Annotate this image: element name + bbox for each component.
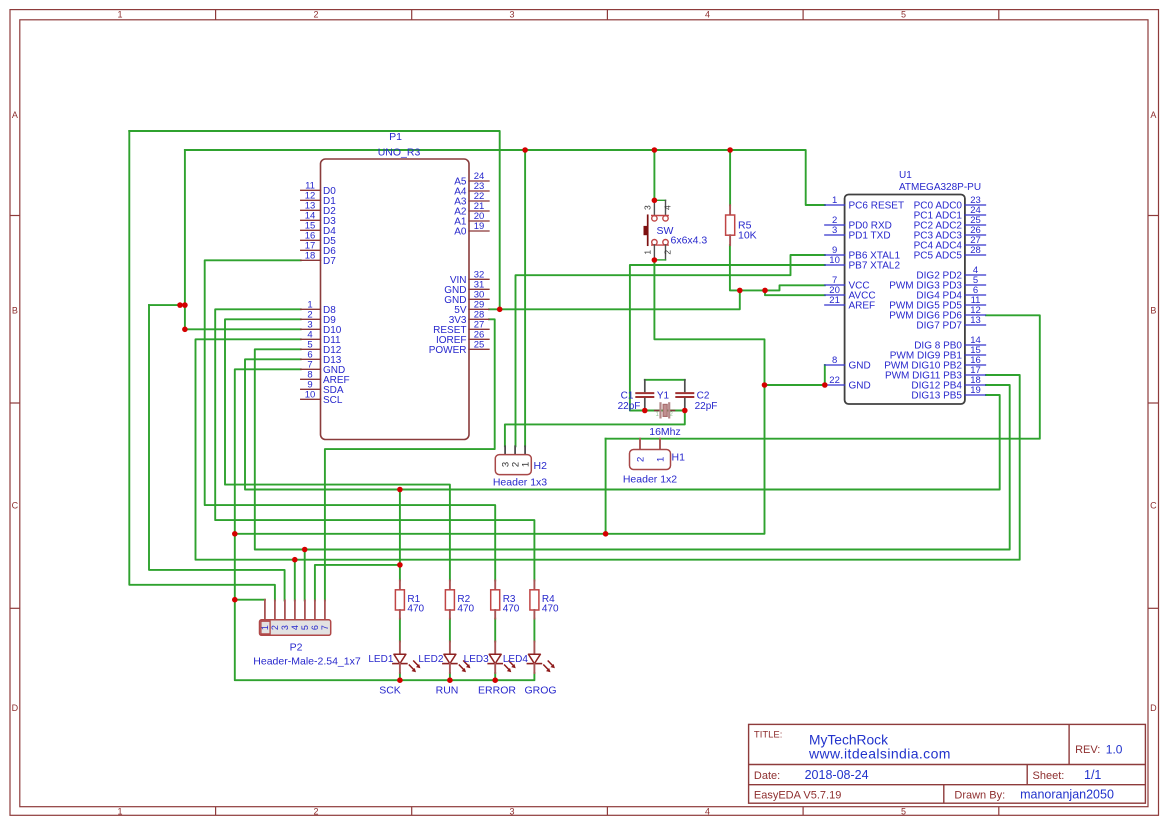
wire node A to P2 pin3 [149,305,285,600]
svg-text:DIG7 PD7: DIG7 PD7 [916,321,962,332]
svg-text:REV:: REV: [1075,744,1100,756]
wire XTAL1 to H2 pin2 [516,255,825,446]
wire P1 5V to VCC net [489,290,740,309]
resistor R3 470 [491,580,520,618]
wire D11 / P2 pin4 / U1 PB3 [196,339,1020,559]
svg-text:D: D [1150,703,1157,713]
wire D13 to R1 and U1 PB5 [245,359,1000,489]
wire SW to rail [653,150,655,200]
LED2 RUN [418,642,470,697]
svg-text:SCK: SCK [379,685,401,697]
wire P2 pin6 to R1 net [315,565,400,601]
svg-text:TITLE:: TITLE: [754,729,783,740]
svg-text:PC6 RESET: PC6 RESET [849,201,905,212]
svg-text:H1: H1 [672,451,686,463]
svg-text:P1: P1 [389,131,402,143]
svg-text:D: D [12,703,19,713]
wire crystal node2 to H2 pin3 [505,411,685,447]
wire VCC jog to R5 bottom [730,245,825,290]
svg-text:B: B [1150,306,1156,316]
svg-text:6: 6 [310,625,320,630]
svg-text:4: 4 [705,807,710,817]
crystal Y1 16Mhz [649,390,681,438]
wire H2 pin1 to RESET rail [524,150,526,446]
svg-text:2: 2 [313,807,318,817]
svg-text:PB7 XTAL2: PB7 XTAL2 [849,261,901,272]
svg-text:1: 1 [520,462,531,467]
wire R3 LED3 link [494,619,496,642]
wire stub at node A [149,304,185,306]
svg-text:2018-08-24: 2018-08-24 [805,768,869,782]
wire R2 LED2 link [449,619,451,642]
svg-text:P2: P2 [290,641,303,653]
svg-text:ATMEGA328P-PU: ATMEGA328P-PU [899,182,981,193]
svg-text:H2: H2 [534,460,548,472]
wire R4 LED4 link [533,619,535,642]
title block [749,724,1146,803]
svg-text:5: 5 [901,10,906,20]
connector H1 Header 1x2 [623,439,685,486]
svg-text:3: 3 [832,225,837,236]
svg-text:10: 10 [305,390,316,401]
svg-text:LED3: LED3 [464,654,489,665]
svg-text:22pF: 22pF [618,401,641,412]
svg-text:1/1: 1/1 [1084,768,1101,782]
svg-text:22: 22 [829,375,840,386]
svg-text:1: 1 [832,195,837,206]
svg-text:4: 4 [662,205,672,210]
resistor R2 470 [445,580,474,618]
connector P1 UNO_R3 [301,131,489,439]
svg-text:LED4: LED4 [503,654,528,665]
svg-text:4: 4 [705,10,710,20]
svg-text:A0: A0 [454,227,467,238]
svg-text:5: 5 [300,625,310,630]
LED1 SCK [368,642,420,697]
svg-text:1: 1 [117,807,122,817]
svg-text:8: 8 [832,355,837,366]
svg-text:2: 2 [270,625,280,630]
svg-text:10: 10 [829,255,840,266]
wire 5V top rail from net node to P1 5V pin [129,131,499,309]
svg-text:13: 13 [970,315,981,326]
svg-text:21: 21 [829,295,840,306]
svg-text:ERROR: ERROR [478,685,516,697]
svg-text:19: 19 [970,385,981,396]
svg-text:manoranjan2050: manoranjan2050 [1020,788,1114,802]
svg-text:LED1: LED1 [368,654,393,665]
wire R1 top vertical [399,490,401,581]
svg-text:3: 3 [509,10,514,20]
svg-text:3: 3 [280,625,290,630]
svg-text:5: 5 [901,807,906,817]
svg-text:DIG13 PB5: DIG13 PB5 [911,391,962,402]
svg-text:Header 1x3: Header 1x3 [493,476,547,488]
wire XTAL2 to crystal node1 [630,265,825,411]
wire top-rail to P2 pin2 [129,131,275,600]
svg-text:1: 1 [643,250,653,255]
svg-text:C: C [12,501,19,511]
svg-text:470: 470 [457,604,474,615]
connector P2 Header-Male-2.54_1x7 [253,600,361,668]
svg-text:25: 25 [474,340,485,351]
capacitor C2 22pF [676,380,717,412]
svg-text:6x6x4.3: 6x6x4.3 [671,234,708,246]
svg-text:EasyEDA V5.7.19: EasyEDA V5.7.19 [754,789,841,801]
svg-text:RUN: RUN [436,685,459,697]
svg-text:U1: U1 [899,170,912,181]
svg-text:3: 3 [643,205,653,210]
LED3 ERROR [464,642,517,697]
capacitor C1 22pF [618,380,654,412]
svg-text:2: 2 [313,10,318,20]
connector H2 Header 1x3 [493,446,547,488]
svg-text:SCL: SCL [323,395,343,406]
wire D9 to R2 [225,319,450,580]
svg-text:A: A [12,110,18,120]
wire LED2 bottom [449,673,451,680]
svg-text:470: 470 [503,604,520,615]
wire R1 LED1 link [399,619,401,642]
svg-text:Date:: Date: [754,770,780,782]
wire P2 pin4 riser [294,560,296,601]
wire P1 GND vertical to LED bottom rail [235,369,535,680]
wire D8 to R4 [215,309,534,580]
pushbutton SW 6x6x4.3 [643,200,708,260]
svg-text:Drawn By:: Drawn By: [954,789,1005,801]
svg-text:1: 1 [655,457,666,462]
svg-text:18: 18 [305,251,316,262]
wire AVCC branch [765,290,825,295]
svg-text:B: B [12,306,18,316]
LED4 GROG [503,642,557,697]
svg-text:PD1 TXD: PD1 TXD [849,231,891,242]
wire GND rail [235,385,765,534]
wire H1 / PD6 net [606,315,1040,438]
svg-text:1: 1 [260,625,270,630]
wire D7 to R3 [205,260,496,580]
svg-text:10K: 10K [738,230,757,242]
svg-text:C2: C2 [697,390,710,401]
wire SW bottom to U1 GND pin22 [654,260,764,385]
svg-text:470: 470 [407,604,424,615]
svg-text:GND: GND [849,361,871,372]
svg-text:7: 7 [320,625,330,630]
svg-text:LED2: LED2 [418,654,443,665]
svg-text:GROG: GROG [524,685,556,697]
wire crystal top cap link [645,379,685,381]
wire GND pin22 stub link [765,384,825,386]
svg-text:POWER: POWER [429,345,467,356]
svg-text:C1: C1 [621,390,634,401]
resistor R5 10K [726,205,757,245]
svg-text:C: C [1150,501,1157,511]
wire R5 to rail [729,150,731,205]
svg-text:22pF: 22pF [695,401,718,412]
svg-text:28: 28 [970,245,981,256]
svg-text:16Mhz: 16Mhz [649,426,681,438]
wire P2 pin5 riser [304,550,306,601]
svg-text:2: 2 [635,457,646,462]
svg-text:Sheet:: Sheet: [1033,770,1065,782]
wire 3V3 to P2 pin7 [325,319,495,600]
wire RESET rail y150 [185,150,825,205]
wire rail drop to D10 node [184,150,186,329]
svg-text:AREF: AREF [849,301,876,312]
svg-text:www.itdealsindia.com: www.itdealsindia.com [808,745,951,761]
wire D10 to node [185,328,301,330]
svg-text:Y1: Y1 [657,390,670,401]
resistor R4 470 [530,580,559,618]
wire GND to P2 pin1 [235,599,265,601]
svg-text:19: 19 [474,221,485,232]
svg-text:UNO_R3: UNO_R3 [378,147,421,159]
svg-text:470: 470 [542,604,559,615]
svg-text:A: A [1150,110,1156,120]
wire crystal bottom node1-node2 [645,410,685,412]
svg-text:1.0: 1.0 [1106,743,1123,757]
svg-text:3: 3 [509,807,514,817]
wire H1 net drop to GND rail [605,439,607,534]
wire D12 / P2 pin5 / U1 PB4 [255,349,1010,549]
wire U1 pin8 GND down to pin22 net [824,365,826,385]
svg-text:2: 2 [662,250,672,255]
svg-text:D7: D7 [323,256,336,267]
svg-text:Header-Male-2.54_1x7: Header-Male-2.54_1x7 [253,655,361,667]
svg-text:1: 1 [117,10,122,20]
svg-text:4: 4 [290,625,300,630]
IC U1 ATMEGA328P-PU [825,170,986,404]
svg-text:PC5 ADC5: PC5 ADC5 [914,251,963,262]
resistor R1 470 [395,580,424,618]
svg-text:GND: GND [849,381,871,392]
wire LED1 bottom [399,673,401,680]
wire LED3 bottom [494,673,496,680]
svg-text:Header 1x2: Header 1x2 [623,473,677,485]
